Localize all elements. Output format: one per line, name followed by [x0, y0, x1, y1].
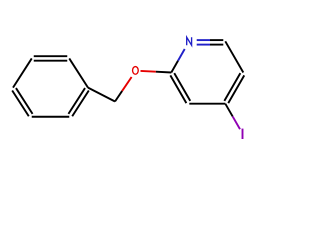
- pyridine double bond C4=C5: [228, 75, 244, 103]
- pyridine bond C6-C5: [225, 41, 243, 72]
- molecular structure: 2-(benzyloxy)-4-iodopyridine: [0, 0, 300, 176]
- pyridine double bond N=C6 (half blue): [197, 39, 210, 41]
- O atom glyph: [133, 67, 139, 75]
- bond ring->CH2: [88, 88, 115, 102]
- pyridine double bond C2=C3: [170, 75, 186, 103]
- bond CH2->O (half red near O): [115, 91, 122, 102]
- pyridine bond N-C2 (half blue): [178, 49, 185, 61]
- pyridine bond C3-C4: [189, 103, 225, 105]
- benzene ring: [12, 56, 89, 117]
- bond C4->I (half purple): [225, 104, 232, 117]
- N atom glyph: [187, 37, 192, 45]
- bond O->C2 (half red): [141, 70, 156, 73]
- I atom glyph: [242, 129, 244, 139]
